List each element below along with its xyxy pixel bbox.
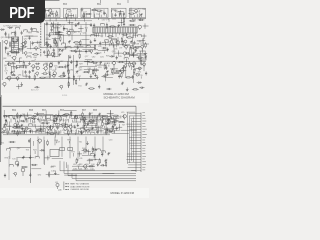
svg-text:T21: T21 [99, 12, 102, 14]
svg-text:L97: L97 [119, 48, 122, 50]
svg-text:D38: D38 [136, 44, 139, 46]
svg-text:T61: T61 [63, 49, 66, 51]
svg-text:C44: C44 [91, 164, 94, 166]
svg-text:L17: L17 [102, 10, 105, 12]
svg-text:R11: R11 [98, 67, 101, 69]
svg-text:T76: T76 [96, 14, 99, 16]
svg-text:D93: D93 [78, 32, 81, 34]
svg-text:Q15: Q15 [1, 37, 5, 39]
svg-text:C88: C88 [45, 63, 48, 65]
svg-text:B58: B58 [29, 110, 34, 112]
svg-text:B55: B55 [93, 110, 98, 112]
svg-text:C19: C19 [39, 116, 42, 118]
svg-text:T68: T68 [48, 72, 51, 74]
svg-text:MODEL P-1260 FM: MODEL P-1260 FM [111, 191, 135, 195]
svg-text:C53: C53 [109, 140, 112, 142]
svg-text:C59: C59 [110, 74, 113, 76]
svg-text:R84: R84 [19, 50, 22, 52]
svg-text:CHASSIS GROUND: CHASSIS GROUND [70, 188, 89, 191]
svg-text:L37: L37 [60, 61, 63, 63]
svg-text:B52: B52 [97, 4, 102, 6]
svg-text:D17: D17 [90, 113, 93, 115]
svg-text:T23: T23 [12, 158, 15, 160]
svg-text:D17: D17 [57, 141, 60, 143]
svg-text:D15: D15 [118, 56, 121, 58]
svg-text:L88: L88 [6, 48, 9, 50]
svg-text:C86: C86 [87, 68, 90, 70]
svg-text:D20: D20 [100, 36, 103, 38]
svg-text:R27: R27 [46, 77, 49, 79]
svg-text:Q82: Q82 [3, 58, 7, 60]
svg-text:R70: R70 [106, 55, 109, 57]
svg-text:N 201: N 201 [62, 95, 68, 97]
svg-text:C17: C17 [83, 12, 86, 14]
svg-text:T20: T20 [139, 75, 142, 77]
svg-text:L92: L92 [102, 20, 105, 22]
svg-text:Q74: Q74 [106, 19, 110, 21]
svg-text:T83: T83 [79, 164, 82, 166]
svg-text:L69: L69 [12, 71, 15, 73]
svg-text:D67: D67 [116, 12, 119, 14]
svg-text:T68: T68 [22, 122, 25, 124]
svg-text:R77: R77 [29, 33, 32, 35]
svg-text:R96: R96 [67, 140, 70, 142]
svg-text:D25: D25 [100, 57, 103, 59]
svg-text:R91: R91 [107, 63, 110, 65]
svg-text:R76: R76 [5, 158, 8, 160]
svg-text:D34: D34 [82, 148, 85, 150]
svg-text:L50: L50 [53, 45, 56, 47]
svg-text:Q60: Q60 [73, 32, 77, 34]
svg-text:Q15: Q15 [112, 51, 116, 53]
svg-text:T22: T22 [85, 27, 88, 29]
svg-text:C84: C84 [33, 57, 36, 59]
svg-text:T69: T69 [31, 60, 34, 62]
svg-text:L46: L46 [110, 115, 113, 117]
svg-text:C97: C97 [78, 76, 81, 78]
svg-text:Q71: Q71 [16, 118, 20, 120]
svg-text:T74: T74 [62, 24, 65, 26]
svg-text:T94: T94 [26, 149, 29, 151]
svg-text:Q72: Q72 [24, 39, 28, 41]
svg-text:Q78: Q78 [83, 153, 87, 155]
svg-text:T11: T11 [1, 142, 4, 144]
svg-text:L81: L81 [99, 126, 102, 128]
svg-text:R29: R29 [79, 63, 82, 65]
svg-text:T23: T23 [98, 53, 101, 55]
svg-text:Q67: Q67 [4, 65, 8, 67]
svg-text:Q17: Q17 [17, 148, 21, 150]
svg-text:B54: B54 [117, 4, 122, 6]
svg-text:D66: D66 [112, 19, 115, 21]
svg-text:AB 1257: AB 1257 [31, 89, 40, 92]
svg-text:L16: L16 [43, 116, 46, 118]
svg-text:Q81: Q81 [18, 75, 22, 77]
svg-text:L25: L25 [121, 112, 124, 114]
svg-text:Q93: Q93 [117, 116, 121, 118]
svg-text:C64: C64 [135, 12, 138, 14]
svg-text:T27: T27 [122, 125, 125, 127]
svg-text:D78: D78 [8, 56, 11, 58]
svg-text:B53: B53 [63, 4, 68, 6]
svg-text:R24: R24 [33, 150, 36, 152]
svg-text:T90: T90 [139, 42, 142, 44]
svg-text:C56: C56 [107, 42, 110, 44]
svg-text:T19: T19 [61, 120, 64, 122]
svg-text:L52: L52 [90, 160, 93, 162]
svg-text:T61: T61 [78, 86, 81, 88]
svg-text:L51: L51 [73, 164, 76, 166]
svg-text:Q69: Q69 [79, 70, 83, 72]
svg-text:T96: T96 [36, 32, 39, 34]
svg-text:R44: R44 [46, 122, 49, 124]
svg-text:C77: C77 [4, 71, 7, 73]
svg-text:SCHEMATIC DIAGRAM: SCHEMATIC DIAGRAM [104, 96, 136, 100]
svg-text:Q46: Q46 [58, 190, 62, 192]
svg-text:T15: T15 [79, 142, 82, 144]
svg-text:D37: D37 [32, 122, 35, 124]
svg-text:C33: C33 [50, 12, 53, 14]
svg-text:PART NO CHASSIS: PART NO CHASSIS [70, 183, 89, 186]
svg-text:Q85: Q85 [50, 166, 54, 168]
svg-text:C45: C45 [12, 47, 15, 49]
svg-text:D72: D72 [38, 175, 41, 177]
svg-text:L11: L11 [55, 182, 58, 184]
svg-text:R54: R54 [29, 52, 32, 54]
svg-text:T62: T62 [68, 12, 71, 14]
svg-text:L50: L50 [98, 46, 101, 48]
svg-text:LEAD WIRE ROUTE: LEAD WIRE ROUTE [70, 185, 90, 188]
svg-text:C62: C62 [72, 9, 75, 11]
svg-text:R77: R77 [71, 152, 74, 154]
svg-text:R68: R68 [132, 19, 135, 21]
svg-text:B52: B52 [12, 110, 17, 112]
svg-text:D31: D31 [8, 126, 11, 128]
svg-text:D94: D94 [70, 70, 73, 72]
svg-text:R73: R73 [138, 9, 141, 11]
svg-text:Q12: Q12 [83, 33, 87, 35]
svg-text:Q77: Q77 [85, 56, 89, 58]
svg-text:C53: C53 [85, 164, 88, 166]
svg-text:T86: T86 [142, 9, 145, 11]
svg-text:L26: L26 [79, 158, 82, 160]
svg-text:C82: C82 [92, 57, 95, 59]
svg-text:D72: D72 [138, 72, 141, 74]
svg-text:C16: C16 [54, 66, 57, 68]
